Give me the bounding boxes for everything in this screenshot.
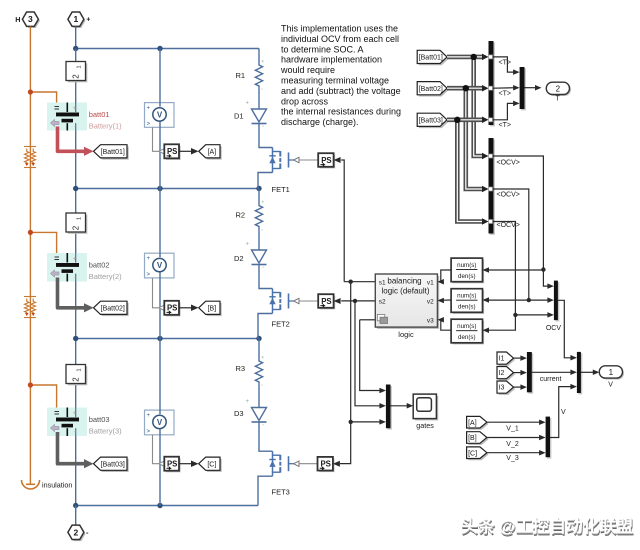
wire: [B] to ABC mux — [487, 435, 546, 441]
node: bottom bus — [73, 503, 163, 508]
node: bus branch 3 — [454, 117, 460, 123]
wire: s3 from logic — [360, 319, 376, 321]
svg-text:balancing: balancing — [387, 276, 421, 285]
svg-text:FET1: FET1 — [272, 185, 290, 194]
wire: s3 down to gates mux in1 — [360, 320, 386, 393]
label V_3 — [506, 455, 519, 462]
svg-text:<OCV>: <OCV> — [497, 192, 520, 199]
PS-Simulink converter 1 — [164, 144, 180, 160]
transfer fcn block 3 — [451, 319, 484, 344]
svg-text:H: H — [15, 15, 20, 24]
wire: [C] to ABC mux — [487, 450, 546, 456]
label FET2 — [272, 320, 290, 329]
from tag [Batt02] — [417, 82, 449, 97]
svg-text:[Batt02]: [Batt02] — [101, 305, 125, 312]
svg-text:': ' — [262, 230, 263, 236]
wire: I2 to current mux — [514, 370, 527, 376]
svg-text:OCV: OCV — [546, 325, 562, 332]
wire: OCV mux to V mux — [558, 300, 577, 360]
svg-text:>: > — [147, 272, 151, 278]
svg-text:gates: gates — [416, 421, 434, 430]
label <OCV> 1 — [497, 160, 520, 167]
gate arrow FET3 — [294, 461, 300, 466]
mux V_abc — [546, 417, 552, 459]
svg-text:头条 @工控自动化联盟: 头条 @工控自动化联盟 — [461, 516, 633, 536]
wire: TF1 out to v1 — [439, 270, 451, 282]
mux OCV — [554, 281, 559, 322]
label current — [540, 376, 562, 383]
port 1 (+) — [68, 12, 91, 28]
wire: PS 2 to goto tag — [179, 305, 199, 312]
svg-text:': ' — [263, 267, 264, 273]
wire: gate PS to FET1 — [299, 159, 318, 161]
resistor R2 — [255, 203, 262, 230]
from tag [B] (voltages) — [467, 432, 489, 445]
svg-text:individual OCV from each cell: individual OCV from each cell — [281, 34, 399, 44]
svg-text:I1: I1 — [499, 356, 505, 363]
goto tag [C] — [199, 457, 222, 472]
svg-text:R3: R3 — [236, 364, 246, 373]
svg-text:discharge (charge).: discharge (charge). — [281, 117, 359, 127]
subsystem logic (balancing logic default) — [375, 274, 439, 329]
svg-text:V: V — [157, 110, 163, 119]
from tag I3 — [497, 381, 515, 395]
node: bus branch 1 — [471, 54, 477, 60]
battery 2 (batt02) — [47, 253, 87, 282]
label D2 — [234, 254, 244, 263]
svg-text:and add (subtract) the voltage: and add (subtract) the voltage — [281, 86, 401, 96]
wire: thermal rail — [29, 27, 31, 480]
scope gates — [413, 394, 438, 420]
svg-text:Battery(3): Battery(3) — [89, 427, 122, 436]
wire: bottom bus to port 2 — [75, 506, 77, 525]
svg-text:V: V — [561, 409, 566, 416]
svg-text:<OCV>: <OCV> — [497, 160, 520, 167]
svg-text:logic (default): logic (default) — [381, 287, 429, 296]
wire: battery 3 measurement bus — [58, 432, 94, 468]
wire: R2 to D2 — [258, 230, 260, 251]
svg-text:num(s): num(s) — [457, 262, 476, 269]
label V_2 — [506, 441, 519, 448]
svg-text:1: 1 — [76, 217, 82, 220]
wire: bus to R2 — [258, 189, 260, 203]
wire: T sel out2 to mux — [494, 85, 520, 91]
outport 2 (T) — [546, 82, 571, 96]
svg-text:V_2: V_2 — [506, 441, 519, 448]
mux T — [520, 67, 526, 110]
transistor FET2 — [269, 289, 293, 314]
label <OCV> 3 — [497, 222, 520, 229]
svg-text:+: + — [147, 106, 151, 112]
svg-text:2: 2 — [556, 84, 561, 93]
svg-text:T: T — [555, 96, 560, 103]
voltage sensor 3 — [145, 410, 175, 435]
from tag [C] (voltages) — [467, 447, 489, 460]
Simulink-PS gate converter 1 — [318, 153, 335, 168]
svg-text:[C]: [C] — [468, 450, 477, 457]
node: thermal branch 2 — [28, 230, 33, 235]
node: OCV3 tee — [513, 313, 517, 317]
battery 1 (batt01) — [47, 103, 87, 131]
wire: thermal branch to battery 3 H port — [30, 385, 56, 410]
svg-text:num(s): num(s) — [457, 293, 476, 300]
svg-text:+: + — [73, 106, 77, 112]
svg-text:2: 2 — [71, 74, 80, 79]
svg-text:[B]: [B] — [208, 305, 217, 312]
svg-text:1: 1 — [76, 65, 82, 68]
svg-text:[Batt03]: [Batt03] — [101, 461, 125, 468]
voltage sensor 2 — [145, 253, 175, 278]
svg-text:+: + — [246, 242, 250, 248]
svg-text:V: V — [157, 261, 163, 270]
label Battery(2) — [89, 272, 122, 281]
from tag I1 — [497, 352, 515, 366]
svg-text:+: + — [246, 399, 250, 405]
voltage sensor 1 — [145, 103, 175, 128]
marks R1 — [262, 61, 265, 96]
label insulation — [42, 481, 72, 490]
node: s2 branch — [353, 299, 357, 303]
svg-text:to determine SOC. A: to determine SOC. A — [281, 44, 364, 54]
svg-text:2: 2 — [71, 377, 80, 382]
svg-text:[C]: [C] — [207, 461, 216, 468]
node: top bus / rail — [73, 46, 78, 51]
label <T> 3 — [499, 122, 511, 129]
wire: T mux to port 2 — [525, 85, 542, 91]
svg-text:PS: PS — [167, 304, 177, 313]
svg-text:drop across: drop across — [281, 96, 329, 106]
label <T> 2 — [499, 91, 511, 98]
label V_1 — [506, 425, 519, 432]
wire: OCV2 to OCV mux — [529, 297, 554, 303]
from tag [Batt03] — [417, 113, 449, 128]
wire: R1 to D1 — [258, 89, 260, 109]
svg-text:R1: R1 — [236, 71, 246, 80]
wire: V mux to port 1 — [581, 370, 599, 376]
wire: gates mux to scope — [391, 403, 414, 409]
goto tag [Batt02] — [94, 301, 129, 316]
svg-text:+: + — [86, 15, 90, 24]
label R3 — [236, 364, 246, 373]
svg-text:I2: I2 — [499, 370, 505, 377]
diode D2 — [252, 250, 267, 265]
svg-text:[A]: [A] — [208, 149, 217, 156]
wire: thermal branch to battery 2 H port — [30, 232, 56, 255]
PS-Simulink converter 3 — [164, 457, 180, 473]
outport 1 (V) — [599, 366, 624, 380]
label <OCV> 2 — [497, 192, 520, 199]
svg-text:-: - — [74, 430, 76, 436]
svg-text:logic: logic — [398, 330, 414, 339]
wire: s2 down to gates mux in2 — [355, 301, 386, 409]
svg-text:V: V — [157, 418, 163, 427]
svg-text:[Batt02]: [Batt02] — [419, 86, 443, 93]
svg-text:v2: v2 — [427, 298, 434, 305]
wire: sensor rail 1 — [159, 49, 161, 189]
wire: mid bus 3 — [76, 338, 259, 340]
svg-text:+: + — [73, 411, 77, 417]
wire: OCV3 to OCV mux — [515, 312, 554, 318]
svg-text:-: - — [74, 124, 76, 130]
mux gates — [386, 385, 392, 430]
svg-text:1: 1 — [74, 14, 79, 24]
svg-text:Battery(2): Battery(2) — [89, 272, 122, 281]
label OCV — [546, 325, 562, 332]
node: OCV2 tee — [527, 298, 531, 302]
goto tag [Batt03] — [94, 457, 129, 472]
bus wire: [Batt01] to T selector — [447, 54, 489, 61]
from tag [A] (voltages) — [467, 416, 489, 429]
svg-text:2: 2 — [74, 527, 79, 537]
bus wire: [Batt01] branch down to OCV selector — [474, 57, 489, 159]
bus wire: [Batt02] to T selector — [447, 85, 489, 92]
diode D3 — [252, 408, 267, 423]
wire: OCV3 to TF3 — [484, 315, 515, 330]
wire: OCV2 to TF2 — [484, 299, 529, 301]
svg-text:D3: D3 — [234, 409, 244, 418]
svg-text:v1: v1 — [427, 279, 434, 286]
node: rail bus y188 — [73, 186, 262, 191]
bus selector OCV — [489, 138, 495, 235]
bus wire: [Batt03] to T selector — [447, 117, 489, 124]
marks R2 — [262, 201, 265, 236]
wire: main rail segments — [75, 49, 77, 506]
svg-text:den(s): den(s) — [458, 273, 476, 280]
label FET1 — [272, 185, 290, 194]
svg-text:This implementation uses the: This implementation uses the — [281, 24, 398, 34]
svg-text:': ' — [262, 89, 263, 95]
PS-Simulink converter 2 — [164, 301, 180, 317]
svg-text:+: + — [147, 256, 151, 262]
wire: R3 to D3 — [258, 385, 260, 408]
label FET3 — [272, 487, 290, 496]
port 2 (-) — [68, 525, 89, 541]
wire: bus to R3 — [258, 339, 260, 359]
goto tag [A] — [199, 145, 222, 160]
svg-text:FET2: FET2 — [272, 320, 290, 329]
wire: I3 to current mux — [514, 384, 527, 390]
svg-text:>: > — [147, 121, 151, 127]
svg-text:[Batt03]: [Batt03] — [419, 117, 443, 124]
arrow into TF3 input — [483, 327, 490, 333]
wire: FET1 source to bus — [258, 173, 273, 189]
svg-text:den(s): den(s) — [458, 304, 476, 311]
wire: s1 up to gate PS1 — [341, 160, 344, 282]
svg-text:+: + — [147, 413, 151, 419]
label R2 — [236, 211, 246, 220]
svg-text:V_3: V_3 — [506, 455, 519, 462]
label batt01 — [89, 110, 110, 119]
svg-text:v3: v3 — [427, 318, 434, 325]
diode D1 — [252, 109, 267, 124]
gate arrow FET2 — [294, 298, 300, 303]
node: bus branch 2 — [463, 85, 469, 91]
goto tag [Batt01] — [94, 145, 129, 160]
svg-text:[Batt01]: [Batt01] — [101, 149, 125, 156]
svg-text:+: + — [73, 256, 77, 262]
svg-text:1: 1 — [76, 368, 82, 371]
bus selector T — [489, 41, 495, 126]
arrow into gate PS 2 — [334, 298, 341, 304]
svg-text:hardware implementation: hardware implementation — [281, 55, 382, 65]
wire: OCV sel3 out — [494, 222, 516, 315]
label logic — [398, 330, 414, 339]
wire: D2 to FET2 drain — [259, 265, 273, 289]
bus wire: [Batt03] branch down to OCV selector — [457, 120, 488, 225]
marks R3 — [262, 357, 265, 392]
svg-text:batt03: batt03 — [89, 415, 110, 424]
node: s1 branch — [349, 280, 353, 284]
arrow into gate PS 1 — [334, 157, 341, 163]
from tag [Batt01] — [417, 50, 449, 65]
svg-text:D1: D1 — [234, 112, 244, 121]
label batt02 — [89, 261, 110, 270]
node: rail bus y338 — [73, 336, 262, 341]
arrow into TF1 input — [483, 267, 490, 273]
svg-text:s1: s1 — [379, 279, 386, 286]
node: top bus / sensor rail — [157, 46, 162, 51]
svg-text:I3: I3 — [499, 385, 505, 392]
arrow into gate PS 3 — [333, 461, 340, 467]
svg-text:num(s): num(s) — [457, 323, 476, 330]
node: thermal branch 1 — [28, 89, 33, 94]
resistor R3 — [255, 358, 262, 385]
transfer fcn block 2 — [451, 289, 484, 314]
wire: gate PS to FET3 — [299, 463, 318, 465]
svg-text:3: 3 — [28, 14, 33, 24]
wire: tap to gates mux in3 — [351, 419, 386, 425]
wire: port1 to top bus — [75, 27, 77, 49]
wire: s2 from logic — [341, 300, 375, 302]
wire: I1 to current mux — [514, 355, 527, 361]
svg-text:s2: s2 — [379, 298, 386, 305]
arrow into logic v port y319 — [437, 317, 444, 323]
insulation block — [22, 480, 40, 490]
wire: sensor 1 output to PS converter — [153, 127, 165, 154]
svg-text:2: 2 — [71, 225, 80, 230]
wire: PS 1 to goto tag — [179, 148, 199, 155]
wire: ABC mux up to V mux — [550, 384, 577, 438]
svg-text:PS: PS — [167, 147, 177, 156]
svg-text:[A]: [A] — [468, 420, 477, 427]
wire: gate PS to FET2 — [299, 300, 318, 302]
wire: bottom bus — [76, 505, 258, 507]
wire: s1 down / PS3 feed — [340, 282, 351, 464]
svg-text:': ' — [263, 126, 264, 132]
annotation text — [280, 24, 401, 128]
thermal conduction element 2 — [24, 297, 36, 318]
svg-text:measuring terminal voltage: measuring terminal voltage — [281, 76, 389, 86]
wire: OCV sel2 out — [494, 189, 529, 300]
wire: battery 1 measurement bus — [58, 127, 94, 156]
svg-text:batt02: batt02 — [89, 261, 110, 270]
transfer fcn block 1 — [451, 258, 484, 283]
transistor FET3 — [269, 451, 293, 476]
svg-text:<T>: <T> — [499, 60, 511, 67]
svg-text:current: current — [540, 376, 562, 383]
wire: T sel out3 to mux — [494, 101, 520, 120]
gate arrow FET1 — [294, 157, 300, 162]
Simulink-PS gate converter 3 — [318, 457, 335, 472]
wire: D3 to FET3 drain — [259, 422, 273, 451]
label T — [555, 96, 560, 103]
svg-text:V: V — [608, 381, 613, 388]
battery 3 (batt03) — [47, 408, 87, 437]
node: gates tap — [349, 420, 353, 424]
arrow into logic v port y300 — [437, 298, 444, 304]
wire: FET2 source to bus — [258, 314, 273, 339]
wire: T sel out1 to mux — [494, 57, 520, 75]
wire: sensor 2 output to PS converter — [153, 278, 165, 311]
svg-text:batt01: batt01 — [89, 110, 110, 119]
svg-text:<T>: <T> — [499, 122, 511, 129]
svg-text:FET3: FET3 — [272, 487, 290, 496]
wire: mid bus 2 — [76, 188, 259, 190]
label V wire — [561, 409, 566, 416]
wire: OCV1 to TF1 — [484, 269, 543, 271]
transistor FET1 — [269, 148, 293, 173]
label D1 — [234, 112, 244, 121]
label R1 — [236, 71, 246, 80]
wire: [A] to ABC mux — [487, 419, 546, 425]
svg-text:+: + — [246, 101, 250, 107]
watermark — [461, 516, 634, 538]
wire: TF3 out to v3 — [439, 320, 451, 330]
Simulink-PS gate converter 2 — [318, 294, 335, 309]
label batt03 — [89, 415, 110, 424]
wire: battery 2 measurement bus — [58, 278, 94, 313]
svg-text:1: 1 — [609, 368, 614, 377]
arrow into logic v port y281 — [437, 279, 444, 285]
svg-text:den(s): den(s) — [458, 334, 476, 341]
svg-text:the internal resistances durin: the internal resistances during — [281, 107, 401, 117]
svg-text:Battery(1): Battery(1) — [89, 122, 122, 131]
marks D3 — [246, 399, 264, 431]
svg-text:<OCV>: <OCV> — [497, 222, 520, 229]
wire: OCV1 to OCV mux — [543, 270, 554, 289]
svg-text:<T>: <T> — [499, 91, 511, 98]
label Battery(1) — [89, 122, 122, 131]
mux V — [577, 352, 582, 395]
svg-text:[B]: [B] — [468, 435, 477, 442]
wire: OCV sel1 out — [494, 156, 544, 270]
from tag I2 — [497, 367, 515, 381]
svg-text:PS: PS — [167, 460, 177, 469]
port H3 (thermal connection port) — [15, 12, 40, 28]
marks D1 — [246, 101, 264, 133]
wire: bus to R1 — [258, 49, 260, 63]
svg-text:[Batt01]: [Batt01] — [419, 55, 443, 62]
wire: TF2 out to v2 — [439, 299, 451, 301]
label <T> 1 — [499, 60, 511, 67]
svg-text:V_1: V_1 — [506, 425, 519, 432]
wire: current mux to V mux — [532, 370, 577, 376]
wire: sensor rail 3 — [159, 339, 161, 506]
svg-text:>: > — [147, 429, 151, 435]
svg-text:': ' — [262, 385, 263, 391]
bus wire: [Batt02] branch down to OCV selector — [466, 88, 489, 192]
svg-text:': ' — [263, 425, 264, 431]
goto tag [B] — [199, 301, 222, 316]
wire: top bus — [76, 48, 259, 50]
wire: thermal branch to battery 1 H port — [30, 92, 56, 105]
label Battery(3) — [89, 427, 122, 436]
svg-text:would require: would require — [280, 65, 335, 75]
svg-text:-: - — [74, 275, 76, 281]
svg-text:D2: D2 — [234, 254, 244, 263]
label D3 — [234, 409, 244, 418]
series block 2 (ports 1-2) — [66, 213, 87, 234]
